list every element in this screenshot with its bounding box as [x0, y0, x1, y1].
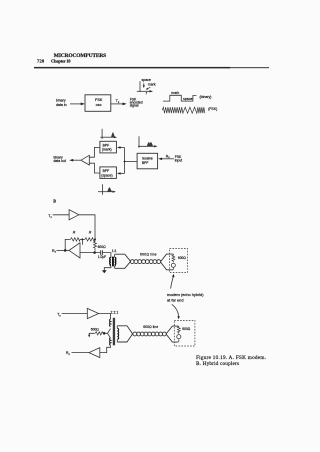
T2 secondary winding: [117, 328, 118, 339]
resistor 600ohm (balance): [94, 332, 104, 335]
far-end modem dashed box (bottom): [174, 321, 195, 347]
svg-text:space: space: [142, 78, 151, 82]
resistor R (left): [70, 238, 80, 241]
svg-text:600Ω line: 600Ω line: [143, 325, 158, 329]
source (far end): [171, 263, 175, 267]
wire: op-amp input: [80, 252, 101, 254]
spectral pointer (mark): [148, 87, 151, 88]
svg-text:B: B: [53, 199, 56, 204]
svg-text:B. Hybrid couplers: B. Hybrid couplers: [196, 361, 239, 367]
svg-text:BPF: BPF: [142, 161, 149, 165]
junction: [124, 161, 126, 163]
filter U2 BPF (mark) box: [100, 141, 117, 153]
filter U3 BPF (space) box: [100, 167, 117, 179]
wire: capacitor to transformer: [102, 253, 111, 258]
svg-text:data in: data in: [56, 103, 67, 107]
junction amp output node: [94, 238, 96, 240]
svg-text:1:1:1: 1:1:1: [111, 310, 119, 314]
svg-text:Chapter 10: Chapter 10: [51, 59, 71, 64]
twisted pair 600ohm line (bottom): [133, 332, 166, 336]
junction between resistors: [81, 238, 83, 240]
svg-text:600Ω: 600Ω: [91, 328, 100, 332]
spectral line (space), down arrow: [143, 83, 145, 86]
svg-text:600Ω: 600Ω: [98, 245, 107, 249]
svg-text:mark: mark: [148, 83, 156, 87]
spectrum above BPF mark: axes: [101, 129, 103, 139]
wire: amp to transformer: [99, 314, 111, 320]
coupler horn (far end, bottom): [166, 326, 178, 342]
T1 primary winding: [110, 257, 111, 265]
wire: Tx to amp: [62, 313, 88, 315]
filter U5 receive BPF box: [137, 153, 158, 169]
amplifier U6 (Tx driver): [69, 210, 79, 220]
svg-text:Rx: Rx: [52, 249, 57, 254]
svg-text:input: input: [175, 158, 182, 162]
wire: amp output to line: [79, 215, 95, 240]
wire: comparator output arrow: [72, 159, 81, 161]
svg-text:Rx: Rx: [66, 351, 71, 356]
spectrum hump (mark): [111, 132, 115, 137]
op-amp U7 (Rx): [69, 243, 80, 258]
svg-text:600Ω: 600Ω: [182, 327, 191, 331]
twisted pair 600ohm line: [130, 260, 161, 264]
wire: primary bottom to ground: [104, 266, 111, 270]
comparator U4 triangle: [81, 155, 89, 165]
source (far end, bottom): [177, 335, 181, 339]
svg-text:FSK: FSK: [95, 98, 103, 102]
spectrum below BPF space: axes: [102, 184, 104, 195]
wire: Rx amp output: [72, 352, 90, 354]
T1 secondary winding: [115, 257, 116, 265]
svg-text:f: f: [146, 92, 148, 96]
wire: right bus into BPFs: [119, 147, 125, 149]
T2 primary bottom winding: [109, 338, 112, 346]
annotation arrow (to top dashed box): [171, 276, 174, 289]
spectrum graph axes (space/mark vs f): [139, 81, 141, 92]
wire: Rx output: [57, 249, 70, 251]
wire: Tx to amp: [53, 214, 69, 216]
resistor 600ohm (far end): [172, 254, 175, 262]
svg-text:600Ω: 600Ω: [178, 256, 187, 260]
T1 core: [112, 257, 115, 267]
coupler horn (far end): [160, 254, 173, 270]
svg-text:data out: data out: [54, 159, 66, 163]
svg-text:1.0μF: 1.0μF: [98, 255, 106, 259]
svg-text:(space): (space): [101, 173, 112, 177]
wire: bus to receive BPF: [125, 161, 138, 163]
resistor 600ohm vertical: [94, 239, 97, 252]
svg-text:at far end: at far end: [167, 298, 184, 303]
binary waveform: [163, 95, 196, 101]
amplifier U8: [87, 308, 98, 318]
svg-text:728: 728: [37, 59, 45, 64]
FSK waveform: [162, 107, 205, 113]
svg-text:signal: signal: [130, 104, 139, 108]
oscillator U1 FSK osc box: [85, 95, 111, 112]
svg-text:osc: osc: [96, 103, 102, 107]
svg-text:receive: receive: [142, 156, 153, 160]
T2 core: [113, 318, 115, 346]
far-end modem dashed box: [170, 249, 188, 273]
svg-text:(FSK): (FSK): [208, 107, 217, 111]
header rule: [34, 67, 230, 69]
coupler horn (near end, bottom): [117, 326, 132, 342]
spectrum above receive BPF: axes: [138, 136, 140, 148]
svg-text:R: R: [89, 230, 92, 234]
wire: space BPF to comparator: [89, 163, 100, 173]
svg-text:Tx: Tx: [116, 99, 120, 104]
svg-text:1:1: 1:1: [112, 249, 117, 253]
svg-text:(binary): (binary): [200, 95, 212, 99]
svg-text:BPF: BPF: [103, 169, 110, 173]
svg-text:modem (echo hybrid): modem (echo hybrid): [167, 292, 204, 297]
svg-text:mark: mark: [171, 91, 179, 95]
amplifier U9 (Rx): [89, 348, 100, 358]
svg-text:Tx: Tx: [48, 214, 52, 219]
svg-text:space: space: [183, 97, 192, 101]
spectrum hump (space): [107, 187, 112, 191]
capacitor C1 1.0uF: [101, 250, 103, 255]
wire: output arrow: [111, 103, 124, 105]
wire: input arrow into FSK osc: [70, 103, 82, 105]
svg-text:binary: binary: [56, 99, 66, 103]
svg-text:R: R: [73, 230, 76, 234]
svg-text:600Ω line: 600Ω line: [140, 252, 157, 256]
ground arrow: [89, 333, 94, 335]
spectrum double hump (receive): [147, 142, 153, 146]
svg-text:(mark): (mark): [102, 148, 112, 152]
wire: bottom winding to Rx amp: [100, 345, 111, 352]
wire: secondary to horn: [116, 326, 118, 342]
coupler horn (near end): [115, 254, 131, 268]
T2 winding junction fork: [104, 329, 110, 339]
T2 primary top winding: [109, 319, 112, 327]
resistor R (right): [85, 238, 95, 241]
svg-text:Tx: Tx: [57, 313, 61, 318]
wire: Rx FSK input arrow: [161, 158, 175, 160]
feedback wire: [65, 239, 95, 250]
resistor 600ohm (far end, bottom): [177, 326, 180, 334]
wire: mark BPF to comparator: [89, 147, 100, 157]
ground: [102, 270, 107, 273]
svg-text:BPF: BPF: [103, 143, 110, 147]
annotation arrow (to bottom dashed box): [172, 304, 179, 316]
wire: secondary to horn: [114, 254, 116, 268]
